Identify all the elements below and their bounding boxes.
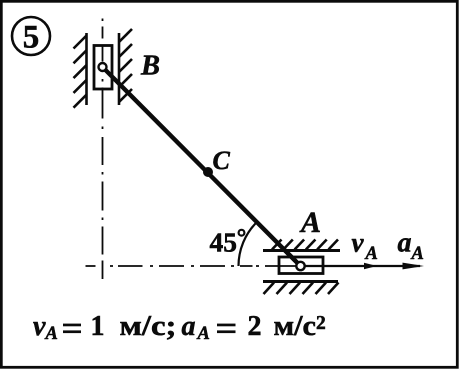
svg-text:2: 2 [248, 311, 262, 342]
svg-text:a: a [182, 311, 196, 342]
given data formula [33, 311, 326, 344]
velocity arrow vA [301, 263, 421, 269]
svg-text:м/с;: м/с; [120, 311, 177, 342]
rod AB [103, 67, 301, 266]
left guide wall [85, 33, 88, 105]
svg-text:a: a [398, 228, 412, 259]
lower rail hatching [264, 283, 339, 295]
pin A [296, 262, 304, 270]
svg-text:A: A [299, 206, 321, 239]
left wall hatching [74, 36, 87, 108]
svg-text:v: v [352, 228, 365, 258]
horizontal centerline (dash-dot) [86, 265, 297, 267]
acceleration arrow aA head [403, 263, 425, 270]
svg-text:A: A [45, 324, 58, 344]
point C [203, 167, 213, 177]
problem number circle 5 [12, 17, 50, 56]
svg-text:м/с: м/с [274, 311, 317, 342]
svg-text:A: A [365, 244, 378, 264]
pin B [99, 63, 107, 71]
svg-text:A: A [197, 324, 210, 344]
svg-text:5: 5 [23, 20, 40, 56]
svg-text:1: 1 [91, 311, 105, 342]
slider block B [94, 46, 112, 90]
right guide wall [118, 33, 121, 105]
vertical centerline (dash-dot) [102, 19, 104, 280]
upper rail hatching [272, 240, 338, 250]
svg-text:C: C [213, 146, 231, 175]
upper rail [263, 249, 340, 252]
right wall hatching [119, 29, 132, 102]
svg-text:B: B [140, 51, 160, 82]
rod end into pin A [285, 251, 301, 267]
svg-text:2: 2 [316, 313, 326, 334]
angle arc [239, 222, 257, 266]
piston inner line [301, 265, 323, 267]
svg-text:A: A [411, 244, 424, 264]
svg-text:45: 45 [210, 227, 238, 258]
svg-text:v: v [33, 311, 46, 342]
lower rail [263, 280, 338, 283]
slider block A [279, 257, 323, 274]
